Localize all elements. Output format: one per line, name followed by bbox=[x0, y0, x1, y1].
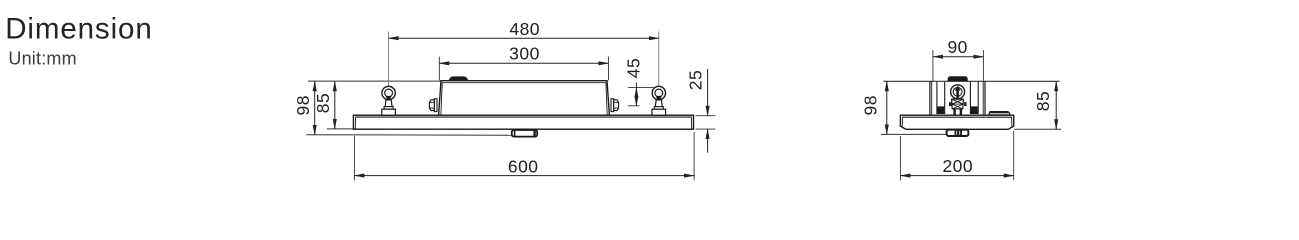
dim 45 top extension bbox=[628, 87, 654, 89]
bracket left outer wall bbox=[929, 81, 931, 115]
extension line through right eyebolt bbox=[658, 32, 660, 108]
left side bracket head bbox=[429, 100, 434, 111]
right side bracket head bbox=[614, 100, 619, 111]
side panel inner top line bbox=[902, 116, 1012, 118]
dome on box top bbox=[449, 76, 469, 80]
panel body bbox=[353, 115, 693, 129]
side panel body bbox=[900, 115, 1013, 129]
extension line through left eyebolt bbox=[388, 32, 390, 108]
right side bracket plate bbox=[611, 99, 614, 112]
eyebolt shaft bbox=[955, 86, 961, 100]
eyebolt front ring bbox=[951, 85, 965, 99]
dim 85 line right view bbox=[1055, 81, 1057, 129]
svg-text:480: 480 bbox=[509, 19, 540, 39]
dim 90 line bbox=[933, 56, 984, 58]
dim 300 right extension bbox=[608, 57, 610, 81]
svg-text:300: 300 bbox=[509, 44, 540, 64]
dim 85 line bbox=[334, 81, 336, 129]
svg-text:25: 25 bbox=[686, 70, 706, 90]
dim 98 line right view bbox=[886, 81, 888, 134]
driver box inner top line bbox=[442, 82, 606, 84]
dim 200 left extension bbox=[899, 136, 901, 180]
dim 90 left extension bbox=[932, 50, 934, 81]
dim 45 line bbox=[635, 83, 637, 88]
eyebolt nut bbox=[952, 99, 964, 109]
panel inner top line bbox=[355, 116, 691, 118]
driver box inner right line bbox=[606, 83, 607, 115]
svg-text:600: 600 bbox=[508, 157, 539, 177]
panel inner right line bbox=[690, 117, 692, 129]
driver box inner left line bbox=[441, 83, 442, 115]
svg-text:85: 85 bbox=[313, 93, 333, 113]
left side bracket plate bbox=[434, 99, 437, 112]
top cap bbox=[947, 76, 968, 81]
dim 300 line bbox=[439, 62, 608, 64]
dim 90 right extension bbox=[982, 50, 984, 81]
dim 98 bottom extension right view bbox=[881, 133, 946, 135]
right post channel bbox=[970, 82, 978, 114]
side panel inner right line bbox=[1011, 117, 1013, 127]
dim 300 left extension bbox=[438, 57, 440, 81]
dim 25 bottom extension bbox=[696, 128, 716, 130]
panel inner left line bbox=[354, 117, 356, 129]
dim 45 bottom extension bbox=[628, 105, 640, 107]
dim 85 bottom extension right view bbox=[1014, 128, 1061, 130]
svg-text:85: 85 bbox=[1033, 91, 1053, 111]
dim 98 line bbox=[314, 81, 316, 135]
svg-text:98: 98 bbox=[860, 95, 880, 115]
bracket right outer wall bbox=[984, 81, 986, 115]
side panel inner left line bbox=[901, 117, 903, 127]
svg-text:Dimension: Dimension bbox=[5, 12, 152, 45]
dim 25 line lower bbox=[707, 129, 709, 153]
dim 200 right extension bbox=[1013, 131, 1015, 180]
dim 25 line upper bbox=[707, 69, 709, 116]
top right tab bbox=[989, 112, 1010, 115]
driver box body bbox=[439, 81, 610, 116]
svg-text:Unit:mm: Unit:mm bbox=[8, 49, 76, 69]
bottom reference line y134.4 bbox=[306, 134, 511, 137]
dim 480 line bbox=[389, 37, 659, 39]
eyebolt nut ears bbox=[949, 102, 951, 106]
dim 600 line bbox=[354, 175, 694, 177]
85 bottom extension line bbox=[327, 128, 354, 130]
dim 600 left extension bbox=[353, 136, 355, 181]
right eyebolt bbox=[652, 86, 666, 115]
svg-text:200: 200 bbox=[942, 156, 973, 176]
svg-text:90: 90 bbox=[947, 37, 967, 57]
bottom tab bbox=[512, 130, 537, 137]
dim 25 top extension bbox=[696, 115, 716, 117]
top reference line y81 bbox=[308, 80, 441, 82]
bottom connector bbox=[947, 130, 969, 136]
dim 600 right extension bbox=[693, 132, 695, 180]
left eyebolt bbox=[382, 86, 396, 115]
svg-text:98: 98 bbox=[293, 95, 313, 115]
left post channel bbox=[937, 82, 945, 114]
dim 200 line bbox=[900, 175, 1013, 177]
svg-text:45: 45 bbox=[623, 58, 643, 78]
eyebolt legs bbox=[953, 109, 955, 115]
long top reference line bbox=[884, 80, 1060, 82]
